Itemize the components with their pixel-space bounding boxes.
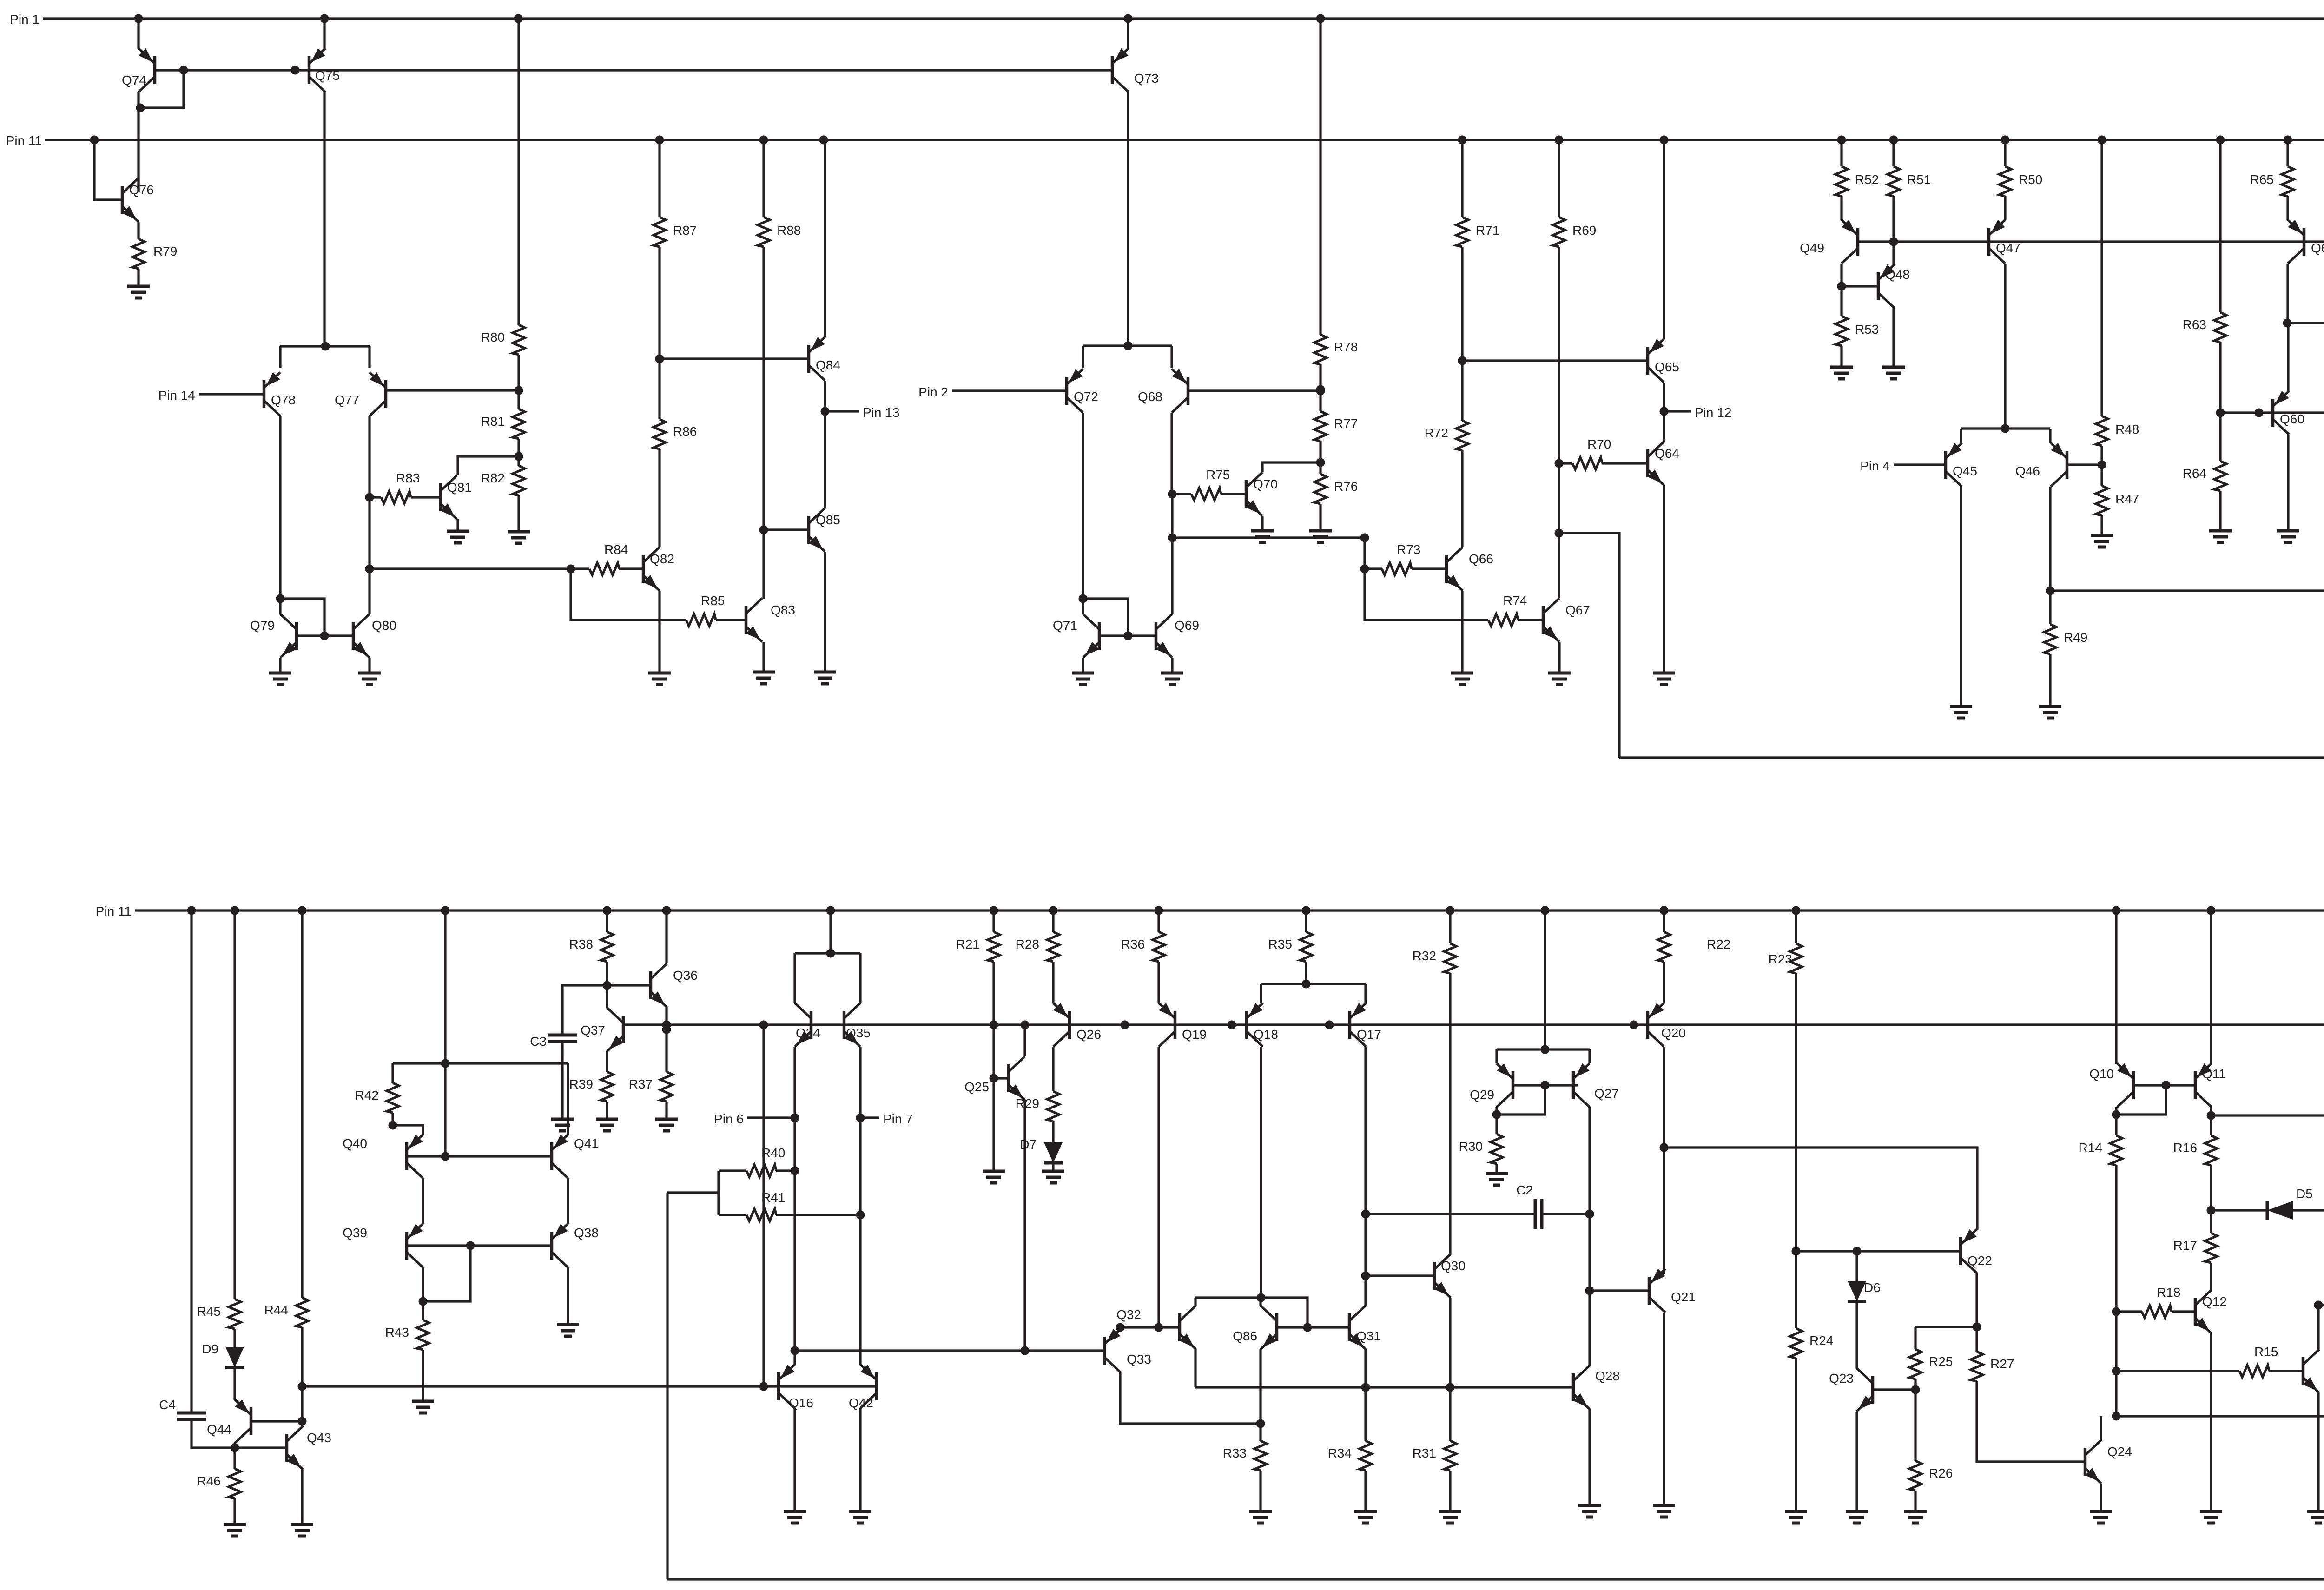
resistor R53 bbox=[1835, 316, 1879, 346]
junction bbox=[791, 1346, 799, 1355]
resistor R41 bbox=[746, 1190, 785, 1221]
svg-text:Q29: Q29 bbox=[1470, 1088, 1494, 1102]
wire R84 branch down bbox=[571, 569, 686, 620]
transistor Q30 bbox=[1434, 1254, 1466, 1298]
junction bbox=[1316, 387, 1325, 396]
svg-text:R47: R47 bbox=[2115, 492, 2139, 506]
junction bbox=[1257, 1293, 1266, 1302]
wire Q69 collector bbox=[1171, 538, 1173, 614]
junction on Pin 11 rail bbox=[1837, 136, 1846, 145]
svg-text:R34: R34 bbox=[1328, 1446, 1352, 1460]
junction bbox=[1555, 459, 1564, 468]
svg-text:Q61: Q61 bbox=[2311, 241, 2324, 255]
transistor Q69 bbox=[1156, 614, 1199, 658]
resistor R63 bbox=[2183, 312, 2226, 342]
svg-text:R18: R18 bbox=[2157, 1285, 2180, 1300]
wire R22 top bbox=[1663, 910, 1665, 932]
resistor R15 bbox=[2239, 1345, 2278, 1377]
ground bbox=[1249, 1511, 1272, 1523]
wire Q21 emitter bbox=[1663, 1313, 1665, 1505]
junction on Pin 11 rail bbox=[1889, 136, 1898, 145]
transistor Q72 bbox=[1067, 369, 1098, 413]
wire R81-R82 bbox=[517, 439, 520, 466]
wire R52-Q49 bbox=[1840, 196, 1842, 220]
wire mid rail bbox=[623, 1023, 2324, 1026]
svg-text:R76: R76 bbox=[1334, 479, 1358, 494]
wire Q73 collector bbox=[1127, 92, 1129, 346]
wire R29-D7 bbox=[1052, 1121, 1054, 1142]
wire run 1630 bbox=[1619, 756, 2324, 759]
svg-text:R26: R26 bbox=[1929, 1466, 1953, 1480]
resistor R87 bbox=[654, 217, 697, 247]
ground bbox=[127, 286, 150, 298]
pin label Pin 1 bbox=[10, 12, 40, 26]
transistor Q27 bbox=[1573, 1063, 1619, 1107]
svg-text:R24: R24 bbox=[1809, 1333, 1833, 1348]
junction on bottom Pin 11 rail bbox=[441, 906, 450, 915]
wire col 2936 bbox=[1363, 538, 1366, 569]
wire Q25 base bbox=[994, 1077, 1009, 1079]
junction bbox=[179, 66, 188, 75]
wire Q32 collector bbox=[1194, 1298, 1196, 1306]
wire R28 top bbox=[1052, 910, 1054, 932]
wire R23 top bbox=[1795, 910, 1797, 943]
wire Q39 collector bbox=[422, 1267, 424, 1320]
wire R69 bottom bbox=[1558, 247, 1560, 463]
junction on bottom Pin 11 rail bbox=[1792, 906, 1801, 915]
junction bbox=[515, 452, 523, 461]
svg-text:Q77: Q77 bbox=[335, 393, 359, 407]
wire R38 top bbox=[606, 910, 608, 932]
wire Q12 emitter bbox=[2210, 1333, 2212, 1511]
wire R69 top bbox=[1558, 140, 1560, 217]
wire R83 left bbox=[370, 496, 381, 498]
wire Q27 column bbox=[1588, 1214, 1591, 1291]
svg-text:Pin 2: Pin 2 bbox=[918, 385, 948, 399]
junction bbox=[1458, 356, 1467, 365]
wire Q39 bc tie bbox=[423, 1246, 470, 1301]
junction bbox=[1889, 238, 1898, 246]
transistor Q60 bbox=[2273, 391, 2304, 435]
wire Q43 emitter bbox=[301, 1470, 303, 1524]
svg-text:Q47: Q47 bbox=[1996, 241, 2020, 255]
transistor Q35 bbox=[844, 1003, 871, 1047]
svg-text:R69: R69 bbox=[1572, 223, 1596, 238]
wire bottom rail bbox=[667, 1578, 2324, 1580]
wire tee34R bbox=[859, 953, 861, 1003]
svg-text:Q60: Q60 bbox=[2280, 412, 2304, 426]
wire Q17 collector bbox=[1364, 1047, 1367, 1306]
wire R18 left bbox=[2116, 1310, 2142, 1313]
transistor Q86 bbox=[1233, 1306, 1277, 1349]
junction bbox=[2046, 587, 2055, 595]
wire R21 top bbox=[992, 910, 995, 932]
ground bbox=[814, 672, 836, 684]
wire D6-Q23 bbox=[1855, 1301, 1858, 1368]
wire Q20 collector bbox=[1663, 1047, 1665, 1274]
junction bbox=[515, 386, 523, 395]
wire R64 gnd bbox=[2219, 491, 2221, 531]
wire quad feed bbox=[444, 910, 446, 1063]
wire Pin 14 stub bbox=[199, 393, 264, 395]
wire Q80 emitter bbox=[368, 658, 370, 673]
resistor R75 bbox=[1191, 468, 1230, 500]
wire Q37 emitter bbox=[606, 1051, 608, 1072]
transistor Q21 bbox=[1649, 1269, 1696, 1313]
junction bbox=[1303, 1323, 1312, 1332]
pin label Pin 2 bbox=[918, 385, 948, 399]
svg-text:Q41: Q41 bbox=[574, 1136, 599, 1151]
ground bbox=[1653, 1505, 1675, 1517]
ground bbox=[2277, 531, 2299, 542]
wire Q86 Q31 base bbox=[1277, 1326, 1349, 1328]
ground bbox=[2209, 531, 2232, 542]
junction bbox=[1360, 565, 1369, 574]
ground bbox=[2039, 706, 2061, 718]
wire tee2 right drop bbox=[1170, 346, 1173, 368]
ground bbox=[1451, 673, 1473, 685]
svg-text:R86: R86 bbox=[673, 424, 697, 439]
wire R41 lead bbox=[719, 1214, 746, 1216]
junction bbox=[1124, 342, 1133, 350]
ground bbox=[508, 532, 530, 543]
wire R27 bottom bbox=[1977, 1381, 2085, 1462]
wire base rail row2 bbox=[1858, 240, 2324, 243]
wire C3 hook bbox=[562, 985, 607, 1035]
wire Q28 collector bbox=[1588, 1291, 1591, 1366]
svg-text:Q30: Q30 bbox=[1441, 1259, 1466, 1273]
wire R87 bottom bbox=[658, 247, 660, 359]
resistor R17 bbox=[2173, 1233, 2217, 1263]
wire tee34L bbox=[793, 953, 796, 1003]
svg-text:Q43: Q43 bbox=[307, 1431, 331, 1445]
wire Q33 emitter bbox=[1119, 1327, 1121, 1329]
wire R85 right bbox=[716, 619, 746, 621]
svg-text:R82: R82 bbox=[481, 471, 505, 485]
wire Q70 collector bbox=[1262, 462, 1320, 472]
ground bbox=[1439, 1511, 1461, 1523]
junction bbox=[1124, 632, 1133, 640]
svg-text:Q37: Q37 bbox=[581, 1023, 605, 1037]
svg-text:Q65: Q65 bbox=[1655, 360, 1679, 374]
wire Q65 emitter bbox=[1663, 140, 1665, 339]
wire R84 right bbox=[619, 567, 643, 570]
junction bbox=[1911, 1385, 1920, 1394]
transistor Q9 bbox=[2303, 1349, 2324, 1393]
ground bbox=[784, 1511, 806, 1523]
wire Pin 7 stub bbox=[860, 1116, 879, 1119]
pin label Pin 13 bbox=[863, 405, 899, 420]
svg-text:Q11: Q11 bbox=[2202, 1067, 2226, 1081]
svg-text:C4: C4 bbox=[159, 1398, 176, 1412]
junction on mid rail bbox=[1630, 1021, 1638, 1029]
resistor R35 bbox=[1268, 932, 1312, 962]
svg-text:R32: R32 bbox=[1413, 949, 1436, 963]
wire Q61 collector bbox=[2286, 264, 2289, 323]
wire tee29R bbox=[1588, 1049, 1591, 1063]
wire tee right drop bbox=[368, 346, 370, 368]
wire tail tee bbox=[280, 345, 370, 347]
svg-text:Pin 12: Pin 12 bbox=[1695, 405, 1731, 420]
transistor Q48 bbox=[1878, 264, 1910, 308]
junction bbox=[291, 66, 300, 75]
wire R22 bottom bbox=[1663, 962, 1665, 1003]
wire Q74 b-c tie bbox=[140, 70, 184, 108]
wire Q33 base wire bbox=[795, 1349, 1104, 1352]
wire Q29 collector bbox=[1495, 1107, 1498, 1134]
svg-text:Q85: Q85 bbox=[816, 513, 840, 527]
junction bbox=[1079, 594, 1088, 603]
wire Q44 base bbox=[251, 1420, 302, 1422]
junction bbox=[1973, 1323, 1981, 1332]
junction on bottom Pin 11 rail bbox=[1302, 906, 1311, 915]
transistor Q77 bbox=[335, 372, 386, 416]
wire tee2 left drop bbox=[1082, 346, 1084, 368]
junction bbox=[419, 1297, 428, 1306]
wire Q67 emitter bbox=[1558, 642, 1560, 673]
wire Q36 emitter bbox=[665, 1007, 667, 1072]
svg-text:Q72: Q72 bbox=[1074, 389, 1098, 404]
transistor Q31 bbox=[1349, 1306, 1381, 1349]
svg-text:D6: D6 bbox=[1864, 1280, 1881, 1295]
svg-text:R36: R36 bbox=[1121, 937, 1145, 951]
wire R15 right bbox=[2269, 1370, 2303, 1372]
wire Q22 emitter link bbox=[1664, 1148, 1977, 1230]
junction on bottom Pin 11 rail bbox=[603, 906, 612, 915]
svg-text:Q67: Q67 bbox=[1565, 603, 1590, 617]
wire C4 bottom bbox=[191, 1419, 235, 1448]
svg-text:R46: R46 bbox=[197, 1474, 221, 1488]
wire R77-R76 bbox=[1319, 441, 1321, 474]
wire rail 1271 bbox=[2050, 589, 2324, 592]
wire Q75 collector bbox=[323, 92, 325, 346]
wire Q35 emitter bbox=[859, 1047, 861, 1365]
wire tee3 drops L bbox=[1960, 429, 1962, 443]
ground bbox=[1950, 706, 1972, 718]
transistor Q42 bbox=[849, 1365, 877, 1410]
wire R46 gnd bbox=[233, 1498, 236, 1524]
junction bbox=[2207, 1111, 2216, 1120]
wire R45-D9 bbox=[233, 1329, 236, 1347]
junction on mid rail bbox=[1121, 1021, 1129, 1029]
junction on bottom Pin 11 rail bbox=[990, 906, 998, 915]
junction bbox=[365, 493, 374, 502]
svg-text:R70: R70 bbox=[1587, 437, 1611, 451]
wire R40 right bbox=[776, 1169, 795, 1172]
wire Q31 emitter bbox=[1364, 1349, 1367, 1387]
transistor Q44 bbox=[207, 1399, 251, 1443]
wire Q30 base bbox=[1366, 1274, 1434, 1277]
ground bbox=[753, 672, 775, 684]
wire D5 wire R bbox=[2293, 1209, 2324, 1211]
wire R65 top bbox=[2286, 140, 2289, 166]
junction bbox=[2098, 461, 2106, 469]
svg-text:Q49: Q49 bbox=[1800, 241, 1824, 255]
svg-text:Pin 11: Pin 11 bbox=[6, 133, 42, 148]
junction on bottom Pin 11 rail bbox=[231, 906, 239, 915]
transistor Q17 bbox=[1350, 1003, 1381, 1047]
wire Q41-Q38 bbox=[567, 1178, 569, 1224]
wire R40 lead bbox=[719, 1169, 746, 1172]
junction bbox=[856, 1211, 865, 1220]
svg-text:R87: R87 bbox=[673, 223, 697, 238]
wire R21 bottom bbox=[992, 962, 995, 1025]
resistor R51 bbox=[1888, 166, 1931, 196]
svg-text:Q40: Q40 bbox=[343, 1136, 367, 1151]
svg-text:Q23: Q23 bbox=[1829, 1371, 1854, 1385]
transistor Q34 bbox=[795, 1003, 820, 1047]
svg-text:R73: R73 bbox=[1397, 542, 1420, 557]
svg-text:Q75: Q75 bbox=[315, 68, 340, 83]
resistor R29 bbox=[1016, 1091, 1059, 1121]
junction bbox=[1492, 1110, 1501, 1119]
wire Q79 collector bbox=[279, 599, 281, 614]
wire Q76 collector bbox=[137, 178, 139, 192]
svg-text:Q69: Q69 bbox=[1175, 618, 1199, 633]
wire Q81 collector bbox=[458, 456, 519, 475]
junction bbox=[856, 1114, 865, 1122]
svg-text:R49: R49 bbox=[2064, 630, 2087, 645]
ground bbox=[1486, 1174, 1508, 1185]
svg-text:R45: R45 bbox=[197, 1304, 221, 1319]
wire R48 top bbox=[2100, 140, 2103, 416]
pin label Pin 6 bbox=[714, 1112, 744, 1126]
wire Q36 base bbox=[607, 984, 651, 986]
transistor Q49 bbox=[1800, 220, 1858, 264]
resistor R74 bbox=[1488, 594, 1527, 626]
transistor Q65 bbox=[1648, 339, 1679, 383]
svg-text:R30: R30 bbox=[1459, 1139, 1483, 1154]
junction on mid rail bbox=[1021, 1021, 1030, 1029]
transistor Q20 bbox=[1648, 1003, 1686, 1047]
wire D9-Q44 bbox=[233, 1367, 236, 1400]
svg-text:R33: R33 bbox=[1223, 1446, 1247, 1460]
wire R53 gnd bbox=[1840, 346, 1842, 367]
wire Q29 Q27 base rail bbox=[1513, 1084, 1578, 1086]
wire R71 bottom bbox=[1461, 247, 1463, 421]
transistor Q81 bbox=[441, 475, 472, 519]
svg-text:R28: R28 bbox=[1016, 937, 1039, 951]
capacitor C3 bbox=[530, 1034, 577, 1049]
svg-text:R78: R78 bbox=[1334, 340, 1358, 354]
wire R17 bottom bbox=[2210, 1263, 2212, 1290]
resistor R46 bbox=[197, 1469, 241, 1498]
wire R25 lead bbox=[1914, 1327, 1916, 1349]
junction on mid rail bbox=[1228, 1021, 1236, 1029]
wire R80-R81 bbox=[517, 355, 520, 409]
junction bbox=[1360, 534, 1369, 542]
junction on bottom Pin 11 rail bbox=[662, 906, 671, 915]
resistor R34 bbox=[1328, 1441, 1372, 1471]
wire tail tee 2 bbox=[1083, 344, 1172, 347]
wire R50-Q47 bbox=[2004, 196, 2006, 220]
junction on bottom Pin 11 rail bbox=[1660, 906, 1669, 915]
ground bbox=[412, 1401, 434, 1413]
junction bbox=[1256, 1419, 1265, 1428]
junction bbox=[2112, 1307, 2121, 1316]
wire Q68 collector bbox=[1170, 413, 1173, 494]
wire R35 top bbox=[1305, 910, 1307, 932]
junction on Pin 1 rail bbox=[1124, 14, 1133, 23]
svg-text:D9: D9 bbox=[202, 1342, 218, 1356]
transistor Q11 bbox=[2195, 1063, 2226, 1107]
wire Q60 emitter bbox=[2287, 323, 2289, 391]
svg-text:R65: R65 bbox=[2250, 172, 2274, 187]
svg-text:R83: R83 bbox=[396, 471, 420, 485]
wire R42 bottom bbox=[391, 1113, 394, 1125]
wire Q32 emitter bbox=[1194, 1349, 1196, 1387]
junction on bottom Pin 11 rail bbox=[826, 906, 835, 915]
resistor R64 bbox=[2183, 461, 2226, 491]
svg-text:Q34: Q34 bbox=[796, 1026, 820, 1040]
wire Q49 collector bbox=[1840, 264, 1842, 316]
svg-text:Q44: Q44 bbox=[207, 1422, 231, 1437]
junction on Pin 1 rail bbox=[514, 14, 523, 23]
wire R79 to gnd bbox=[137, 269, 139, 286]
junction on bottom Pin 11 rail bbox=[1446, 906, 1455, 915]
transistor Q36 bbox=[651, 963, 698, 1007]
svg-text:Q32: Q32 bbox=[1116, 1307, 1141, 1322]
ground bbox=[983, 1171, 1005, 1183]
transistor Q18 bbox=[1247, 1003, 1278, 1047]
transistor Q79 bbox=[250, 614, 297, 658]
junction bbox=[466, 1241, 475, 1250]
resistor R88 bbox=[758, 217, 801, 247]
wire R32 top bbox=[1449, 910, 1451, 943]
junction on Pin 1 rail bbox=[320, 14, 329, 23]
wire Q85 emitter bbox=[824, 552, 826, 672]
svg-text:R42: R42 bbox=[355, 1088, 379, 1102]
wire R18 right bbox=[2172, 1310, 2195, 1313]
junction bbox=[759, 1382, 768, 1391]
wire Q48 base bbox=[1842, 285, 1878, 287]
wire Q86 collector bbox=[1259, 1298, 1261, 1306]
resistor R72 bbox=[1425, 421, 1468, 450]
junction on Pin 11 rail bbox=[2098, 136, 2106, 145]
svg-text:Q83: Q83 bbox=[771, 603, 795, 617]
wire Q86 bc tie bbox=[1195, 1298, 1307, 1327]
wire Pin 2 stub bbox=[952, 389, 1067, 392]
wire tee29 bbox=[1497, 1048, 1590, 1050]
wire Q39 Q38 base rail bbox=[407, 1244, 552, 1247]
wire R63 top bbox=[2219, 140, 2221, 312]
svg-text:Q24: Q24 bbox=[2107, 1445, 2132, 1459]
wire Q77 collector bbox=[368, 416, 370, 614]
junction bbox=[276, 594, 285, 603]
resistor R23 bbox=[1769, 943, 1802, 973]
wire R28 bottom bbox=[1052, 962, 1054, 1003]
wire R26 gnd bbox=[1914, 1491, 1916, 1511]
ground bbox=[1653, 673, 1675, 685]
junction bbox=[2112, 1412, 2121, 1421]
wire Q9 emitter bbox=[2317, 1393, 2319, 1511]
wire tee left drop bbox=[279, 346, 281, 368]
capacitor C4 bbox=[159, 1398, 206, 1419]
wire tee18 bbox=[1261, 983, 1366, 985]
junction bbox=[2112, 1110, 2121, 1119]
wire Q68 col low bbox=[1171, 494, 1173, 538]
wire R15 left bbox=[2116, 1370, 2239, 1372]
svg-text:R81: R81 bbox=[481, 414, 505, 429]
resistor R45 bbox=[197, 1299, 241, 1329]
wire Q72 collector bbox=[1082, 413, 1084, 614]
transistor Q24 bbox=[2085, 1440, 2132, 1484]
wire R14 bottom bbox=[2115, 1165, 2117, 1416]
resistor R80 bbox=[481, 325, 525, 355]
svg-text:Q31: Q31 bbox=[1356, 1329, 1381, 1343]
svg-text:Q39: Q39 bbox=[343, 1226, 367, 1240]
junction bbox=[1155, 1323, 1163, 1332]
